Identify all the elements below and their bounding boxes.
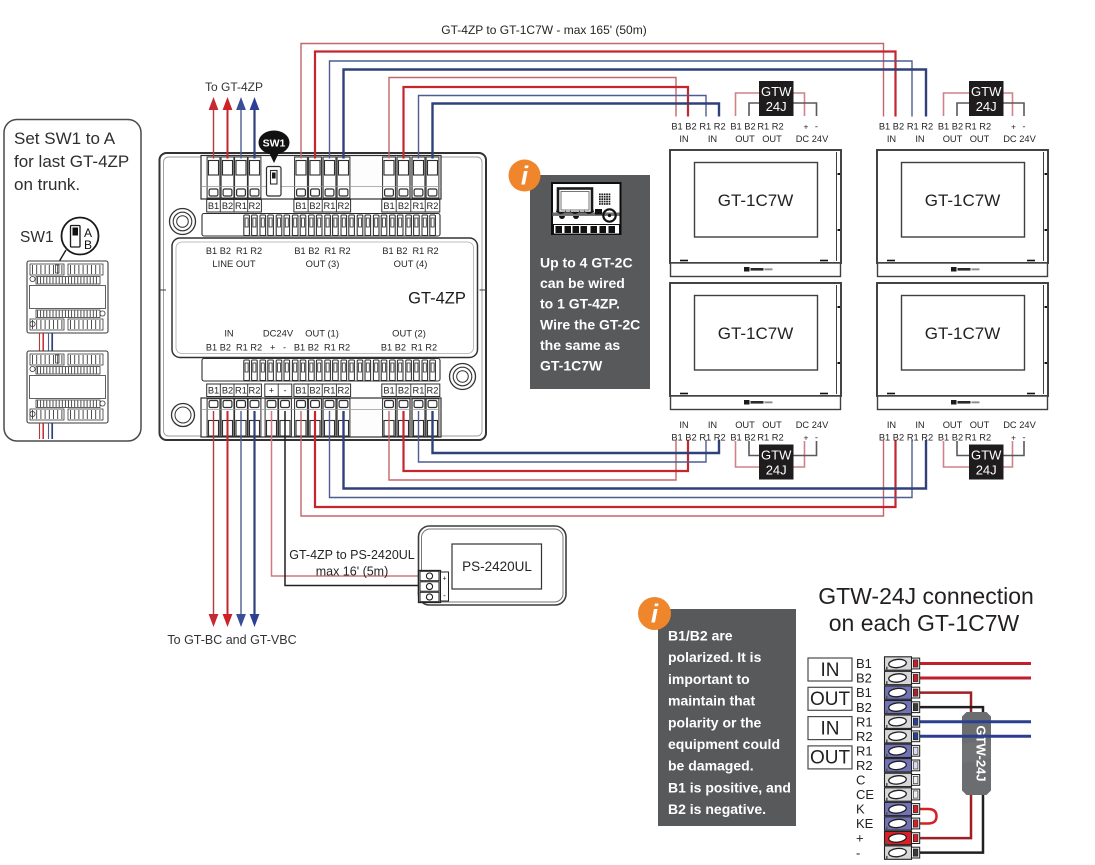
svg-text:i: i bbox=[651, 599, 659, 629]
GT-1C7W monitor M3 (near-bottom) bbox=[670, 283, 841, 410]
svg-text:OUT: OUT bbox=[762, 134, 782, 144]
svg-text:i: i bbox=[521, 161, 529, 191]
svg-text:IN: IN bbox=[224, 328, 233, 339]
svg-text:C: C bbox=[856, 773, 865, 788]
wire OUT(3) R1 to far-top monitor bbox=[330, 61, 913, 159]
svg-text:DC 24V: DC 24V bbox=[796, 420, 829, 430]
svg-text:R2: R2 bbox=[427, 386, 439, 396]
svg-text:B1 B2: B1 B2 bbox=[938, 433, 963, 443]
svg-text:-: - bbox=[856, 845, 860, 860]
GTW 24J adaptor top-far bbox=[969, 81, 1004, 116]
PS-2420UL power supply bbox=[419, 526, 567, 605]
svg-text:CE: CE bbox=[856, 787, 874, 802]
svg-text:24J: 24J bbox=[976, 99, 997, 114]
mini trunk wires below inset unit 2 bbox=[40, 423, 53, 439]
svg-text:B1: B1 bbox=[383, 201, 394, 211]
svg-text:R2: R2 bbox=[856, 758, 873, 773]
trunk-in arrows to GT-4ZP bbox=[209, 97, 260, 159]
heading: GTW-24J connection bbox=[818, 583, 1034, 636]
wire OUT(1) R1 to far-bottom monitor bbox=[330, 411, 913, 498]
info text: polarity warning bbox=[668, 628, 791, 818]
svg-text:R1 R2: R1 R2 bbox=[757, 433, 783, 443]
svg-text:OUT: OUT bbox=[735, 134, 755, 144]
wire GTW pigtail B-out far-bottom bbox=[944, 441, 1013, 467]
svg-text:B1 B2 R1 R2: B1 B2 R1 R2 bbox=[206, 246, 262, 256]
svg-text:DC 24V: DC 24V bbox=[796, 134, 829, 144]
svg-text:R1: R1 bbox=[413, 386, 425, 396]
svg-text:GTW: GTW bbox=[971, 84, 1002, 99]
svg-text:maintain that: maintain that bbox=[668, 693, 755, 709]
wire DC24V + to PS-2420UL bbox=[272, 411, 420, 576]
svg-text:24J: 24J bbox=[766, 99, 787, 114]
trunk-out arrows to GT-BC / GT-VBC bbox=[209, 411, 260, 627]
svg-text:GTW-24J: GTW-24J bbox=[974, 725, 989, 781]
svg-text:+ -: + - bbox=[270, 343, 286, 353]
svg-text:GT-4ZP: GT-4ZP bbox=[408, 290, 466, 308]
svg-text:be damaged.: be damaged. bbox=[668, 758, 754, 774]
svg-text:LINE OUT: LINE OUT bbox=[212, 258, 256, 269]
svg-text:R1 R2: R1 R2 bbox=[699, 433, 725, 443]
wire GTW pigtail B-out near-bottom bbox=[736, 441, 805, 467]
svg-text:B1 B2 R1 R2: B1 B2 R1 R2 bbox=[381, 343, 437, 353]
svg-text:B1: B1 bbox=[856, 685, 872, 700]
svg-text:Up to 4 GT-2C: Up to 4 GT-2C bbox=[540, 255, 633, 271]
wire GTW pigtail R-out near-top bbox=[749, 103, 817, 116]
svg-text:B2: B2 bbox=[398, 386, 409, 396]
label: To GT-BC and GT-VBC bbox=[167, 633, 296, 647]
wire GTW pigtail B-out far-top bbox=[944, 93, 1013, 116]
detail terminal name labels bbox=[856, 656, 874, 860]
svg-text:polarity or the: polarity or the bbox=[668, 714, 762, 730]
svg-text:on trunk.: on trunk. bbox=[14, 175, 80, 194]
GT-4ZP model label bbox=[408, 290, 466, 308]
inner panel labels top bbox=[206, 246, 439, 269]
SW1 A/B switch magnifier circle bbox=[57, 218, 99, 267]
svg-text:IN: IN bbox=[821, 718, 840, 739]
svg-text:R1: R1 bbox=[324, 386, 336, 396]
svg-text:to 1 GT-4ZP.: to 1 GT-4ZP. bbox=[540, 296, 620, 312]
svg-text:OUT (3): OUT (3) bbox=[306, 258, 340, 269]
wire OUT(3) B1 to far-top monitor bbox=[301, 44, 884, 159]
detail port box OUT at y=745.9 bbox=[808, 746, 852, 769]
PS-2420UL terminal block bbox=[419, 571, 449, 603]
wire GTW pigtail R-out near-bottom bbox=[749, 441, 817, 456]
svg-text:IN: IN bbox=[887, 420, 896, 430]
wire OUT(1) B2 to far-bottom monitor bbox=[315, 411, 896, 507]
svg-text:B2: B2 bbox=[856, 671, 872, 686]
svg-text:R2: R2 bbox=[338, 201, 350, 211]
svg-text:B2: B2 bbox=[222, 386, 233, 396]
mini trunk wires between inset units bbox=[40, 333, 53, 351]
svg-text:B2: B2 bbox=[309, 201, 320, 211]
mini GT-4ZP unit 1 (inset) bbox=[27, 261, 108, 333]
inset caption text bbox=[14, 129, 129, 194]
svg-text:GT-1C7W: GT-1C7W bbox=[925, 324, 1001, 343]
svg-text:K: K bbox=[856, 802, 865, 817]
detail port box OUT at y=687.3 bbox=[808, 687, 852, 710]
svg-text:R1: R1 bbox=[324, 201, 336, 211]
svg-text:important to: important to bbox=[668, 671, 750, 687]
wire detail K-KE jumper bbox=[920, 809, 937, 824]
svg-text:GTW-24J connection: GTW-24J connection bbox=[818, 583, 1034, 609]
mounting hole bottom-left bbox=[172, 404, 195, 427]
SW1 callout bubble bbox=[259, 131, 290, 164]
svg-text:24J: 24J bbox=[976, 463, 997, 478]
svg-text:24J: 24J bbox=[766, 463, 787, 478]
bottom wire clamp row bbox=[202, 359, 440, 382]
svg-text:-: - bbox=[283, 386, 286, 396]
svg-text:GTW: GTW bbox=[971, 448, 1002, 463]
svg-text:B2 is negative.: B2 is negative. bbox=[668, 801, 766, 817]
wire DC24V - to PS-2420UL bbox=[285, 411, 419, 586]
GTW 24J adaptor bottom-far bbox=[969, 445, 1004, 480]
svg-text:B1 B2: B1 B2 bbox=[879, 122, 904, 132]
svg-text:SW1: SW1 bbox=[263, 138, 286, 150]
GTW 24J adaptor top-near bbox=[759, 81, 794, 116]
svg-text:DC 24V: DC 24V bbox=[1003, 420, 1036, 430]
wire detail R1 IN trunk bbox=[920, 720, 1032, 723]
svg-text:B1 B2: B1 B2 bbox=[879, 433, 904, 443]
svg-text:IN: IN bbox=[887, 134, 896, 144]
svg-text:+: + bbox=[269, 386, 274, 396]
top terminal label cells B1 B2 R1 R2 bbox=[207, 200, 440, 213]
svg-text:B1 B2 R1 R2: B1 B2 R1 R2 bbox=[382, 246, 438, 256]
terminal labels below far-bottom monitor bbox=[879, 420, 1037, 444]
info box: Up to 4 GT-2C bbox=[530, 175, 650, 389]
svg-text:R2: R2 bbox=[427, 201, 439, 211]
svg-text:the same as: the same as bbox=[540, 337, 620, 353]
svg-text:can be wired: can be wired bbox=[540, 275, 625, 291]
svg-text:GTW: GTW bbox=[761, 84, 792, 99]
svg-text:GT-4ZP to PS-2420UL: GT-4ZP to PS-2420UL bbox=[289, 548, 415, 562]
svg-text:OUT (1): OUT (1) bbox=[305, 328, 339, 339]
svg-text:R2: R2 bbox=[249, 386, 261, 396]
svg-text:+: + bbox=[1011, 122, 1016, 132]
svg-text:B: B bbox=[84, 238, 92, 252]
inner panel labels bottom bbox=[206, 328, 437, 353]
svg-text:IN: IN bbox=[821, 660, 840, 681]
wire GTW pigtail B-out near-top bbox=[736, 93, 805, 116]
svg-text:equipment could: equipment could bbox=[668, 736, 780, 752]
GT-4ZP top terminal strip bbox=[201, 156, 441, 200]
mini GT-4ZP unit 2 (inset) bbox=[27, 351, 108, 423]
GT-2C station image bbox=[552, 183, 621, 234]
top wire clamp row bbox=[202, 214, 440, 237]
svg-text:-: - bbox=[443, 591, 446, 600]
svg-text:R1: R1 bbox=[235, 386, 247, 396]
svg-text:PS-2420UL: PS-2420UL bbox=[462, 559, 532, 574]
wire OUT(3) B2 to far-top monitor bbox=[315, 52, 896, 159]
wire OUT(1) R2 to far-bottom monitor bbox=[344, 411, 927, 489]
svg-text:OUT: OUT bbox=[762, 420, 782, 430]
terminal labels above far-top monitor bbox=[879, 122, 1037, 145]
svg-text:R1: R1 bbox=[856, 743, 873, 758]
svg-text:R2: R2 bbox=[338, 386, 350, 396]
svg-text:B1 B2: B1 B2 bbox=[938, 122, 963, 132]
GTW 24J adaptor bottom-near bbox=[759, 445, 794, 480]
svg-text:B1/B2 are: B1/B2 are bbox=[668, 628, 733, 644]
info box: B1/B2 are polarized bbox=[658, 609, 796, 826]
wire detail B1 OUT to + bbox=[920, 693, 972, 839]
info text: Up to 4 GT-2C bbox=[540, 255, 640, 374]
info icon (orange i) bottom box bbox=[638, 597, 671, 630]
svg-text:GT-1C7W: GT-1C7W bbox=[718, 191, 794, 210]
svg-text:B1 B2 R1 R2: B1 B2 R1 R2 bbox=[206, 343, 262, 353]
svg-text:IN: IN bbox=[679, 134, 688, 144]
terminal labels below near-bottom monitor bbox=[671, 420, 829, 444]
detail port box IN at y=658 bbox=[808, 658, 852, 681]
GTW-24J detail terminal strip bbox=[885, 657, 920, 860]
svg-text:To GT-BC and GT-VBC: To GT-BC and GT-VBC bbox=[167, 633, 296, 647]
wire GTW pigtail R-out far-bottom bbox=[957, 441, 1024, 456]
svg-text:R1 R2: R1 R2 bbox=[965, 122, 991, 132]
svg-text:B1: B1 bbox=[208, 201, 219, 211]
svg-text:B1: B1 bbox=[856, 656, 872, 671]
wire OUT(4) R2 to near-top monitor bbox=[433, 104, 720, 159]
bottom terminal label cells bbox=[207, 384, 440, 397]
SW1 dip switch slot bbox=[267, 167, 282, 197]
svg-text:max 16' (5m): max 16' (5m) bbox=[316, 565, 389, 579]
svg-text:IN: IN bbox=[679, 420, 688, 430]
svg-text:OUT: OUT bbox=[810, 689, 851, 710]
svg-text:B2: B2 bbox=[398, 201, 409, 211]
PS-2420UL caption bbox=[289, 548, 415, 579]
svg-text:B1 B2 R1 R2: B1 B2 R1 R2 bbox=[294, 343, 350, 353]
GT-4ZP unit body bbox=[160, 153, 487, 440]
svg-text:R1 R2: R1 R2 bbox=[907, 433, 933, 443]
svg-text:on each GT-1C7W: on each GT-1C7W bbox=[829, 610, 1020, 636]
svg-text:R1 R2: R1 R2 bbox=[965, 433, 991, 443]
svg-text:GT-1C7W: GT-1C7W bbox=[925, 191, 1001, 210]
svg-text:OUT: OUT bbox=[970, 420, 990, 430]
svg-text:R2: R2 bbox=[249, 201, 261, 211]
svg-text:B1 B2: B1 B2 bbox=[671, 433, 696, 443]
svg-text:B2: B2 bbox=[222, 201, 233, 211]
svg-text:IN: IN bbox=[708, 134, 717, 144]
svg-text:B1 B2: B1 B2 bbox=[730, 433, 755, 443]
wire OUT(2) R1 to near-bottom monitor bbox=[419, 411, 707, 462]
wire OUT(2) R2 to near-bottom monitor bbox=[433, 411, 720, 453]
svg-text:GT-4ZP to GT-1C7W - max 165' (: GT-4ZP to GT-1C7W - max 165' (50m) bbox=[441, 23, 646, 37]
wire OUT(3) R2 to far-top monitor bbox=[344, 70, 927, 159]
svg-text:To GT-4ZP: To GT-4ZP bbox=[205, 80, 263, 94]
wire detail R2 IN trunk bbox=[920, 735, 1032, 738]
svg-text:B1 B2 R1 R2: B1 B2 R1 R2 bbox=[294, 246, 350, 256]
wire OUT(4) B1 to near-top monitor bbox=[389, 78, 676, 159]
svg-text:B2: B2 bbox=[309, 386, 320, 396]
svg-text:GT-1C7W: GT-1C7W bbox=[540, 358, 603, 374]
svg-text:polarized. It is: polarized. It is bbox=[668, 649, 762, 665]
svg-text:R1 R2: R1 R2 bbox=[699, 122, 725, 132]
info icon (orange i) center box bbox=[509, 160, 541, 192]
svg-text:+: + bbox=[804, 122, 809, 132]
svg-text:OUT: OUT bbox=[810, 748, 851, 769]
GTW-24J sleeve on detail wires bbox=[962, 712, 991, 795]
svg-text:B2: B2 bbox=[856, 700, 872, 715]
mounting hole top-left bbox=[170, 209, 196, 235]
label: To GT-4ZP bbox=[205, 80, 263, 94]
svg-text:IN: IN bbox=[708, 420, 717, 430]
GT-1C7W monitor M4 (far-bottom) bbox=[877, 283, 1048, 410]
svg-text:R1 R2: R1 R2 bbox=[757, 122, 783, 132]
svg-text:SW1: SW1 bbox=[20, 229, 54, 246]
svg-text:OUT: OUT bbox=[735, 420, 755, 430]
wire GTW pigtail R-out far-top bbox=[957, 103, 1024, 116]
svg-text:OUT (4): OUT (4) bbox=[394, 258, 428, 269]
svg-text:for last GT-4ZP: for last GT-4ZP bbox=[14, 152, 129, 171]
svg-text:DC24V: DC24V bbox=[263, 328, 294, 339]
svg-text:B1: B1 bbox=[295, 386, 306, 396]
svg-text:R1: R1 bbox=[856, 714, 873, 729]
svg-text:B1: B1 bbox=[208, 386, 219, 396]
svg-text:DC 24V: DC 24V bbox=[1003, 134, 1036, 144]
svg-text:-: - bbox=[815, 122, 818, 133]
svg-text:+: + bbox=[856, 831, 864, 846]
svg-text:B1 is positive, and: B1 is positive, and bbox=[668, 779, 791, 795]
detail port box IN at y=716.6 bbox=[808, 717, 852, 740]
wire detail B2 OUT to - bbox=[920, 707, 984, 853]
svg-text:OUT: OUT bbox=[970, 134, 990, 144]
GT-4ZP inner panel bbox=[172, 238, 478, 358]
svg-text:OUT: OUT bbox=[943, 420, 963, 430]
svg-text:R1: R1 bbox=[235, 201, 247, 211]
svg-text:GTW: GTW bbox=[761, 448, 792, 463]
svg-text:R2: R2 bbox=[856, 729, 873, 744]
svg-text:KE: KE bbox=[856, 816, 874, 831]
wire detail B2 IN trunk bbox=[920, 677, 1032, 680]
wire OUT(2) B2 to near-bottom monitor bbox=[404, 411, 689, 471]
terminal labels above near-top monitor bbox=[671, 122, 829, 145]
inset note box: Set SW1 to A bbox=[4, 120, 141, 442]
svg-text:IN: IN bbox=[915, 134, 924, 144]
svg-text:Set SW1 to A: Set SW1 to A bbox=[14, 129, 116, 148]
svg-text:B1 B2: B1 B2 bbox=[671, 122, 696, 132]
wire OUT(4) B2 to near-top monitor bbox=[404, 87, 689, 159]
svg-text:B1: B1 bbox=[295, 201, 306, 211]
svg-text:OUT (2): OUT (2) bbox=[392, 328, 426, 339]
svg-text:IN: IN bbox=[915, 420, 924, 430]
GT-4ZP bottom terminal strip bbox=[201, 398, 441, 437]
GT-1C7W monitor M2 (far-top) bbox=[877, 150, 1048, 277]
wire OUT(4) R1 to near-top monitor bbox=[419, 96, 707, 159]
svg-text:+: + bbox=[442, 576, 446, 583]
svg-text:R1 R2: R1 R2 bbox=[907, 122, 933, 132]
svg-text:B1 B2: B1 B2 bbox=[730, 122, 755, 132]
SW1 label (inset) bbox=[20, 229, 54, 246]
mounting hole bottom-right bbox=[450, 364, 476, 390]
svg-text:OUT: OUT bbox=[943, 134, 963, 144]
svg-text:R1: R1 bbox=[413, 201, 425, 211]
wire detail B1 IN trunk bbox=[920, 662, 1032, 665]
svg-text:Wire the GT-2C: Wire the GT-2C bbox=[540, 316, 640, 332]
svg-text:-: - bbox=[1022, 122, 1025, 133]
svg-text:B1: B1 bbox=[383, 386, 394, 396]
wire OUT(1) B1 to far-bottom monitor bbox=[301, 411, 884, 516]
GT-1C7W monitor M1 (near-top) bbox=[670, 150, 841, 277]
svg-text:GT-1C7W: GT-1C7W bbox=[718, 324, 794, 343]
wire OUT(2) B1 to near-bottom monitor bbox=[389, 411, 676, 480]
